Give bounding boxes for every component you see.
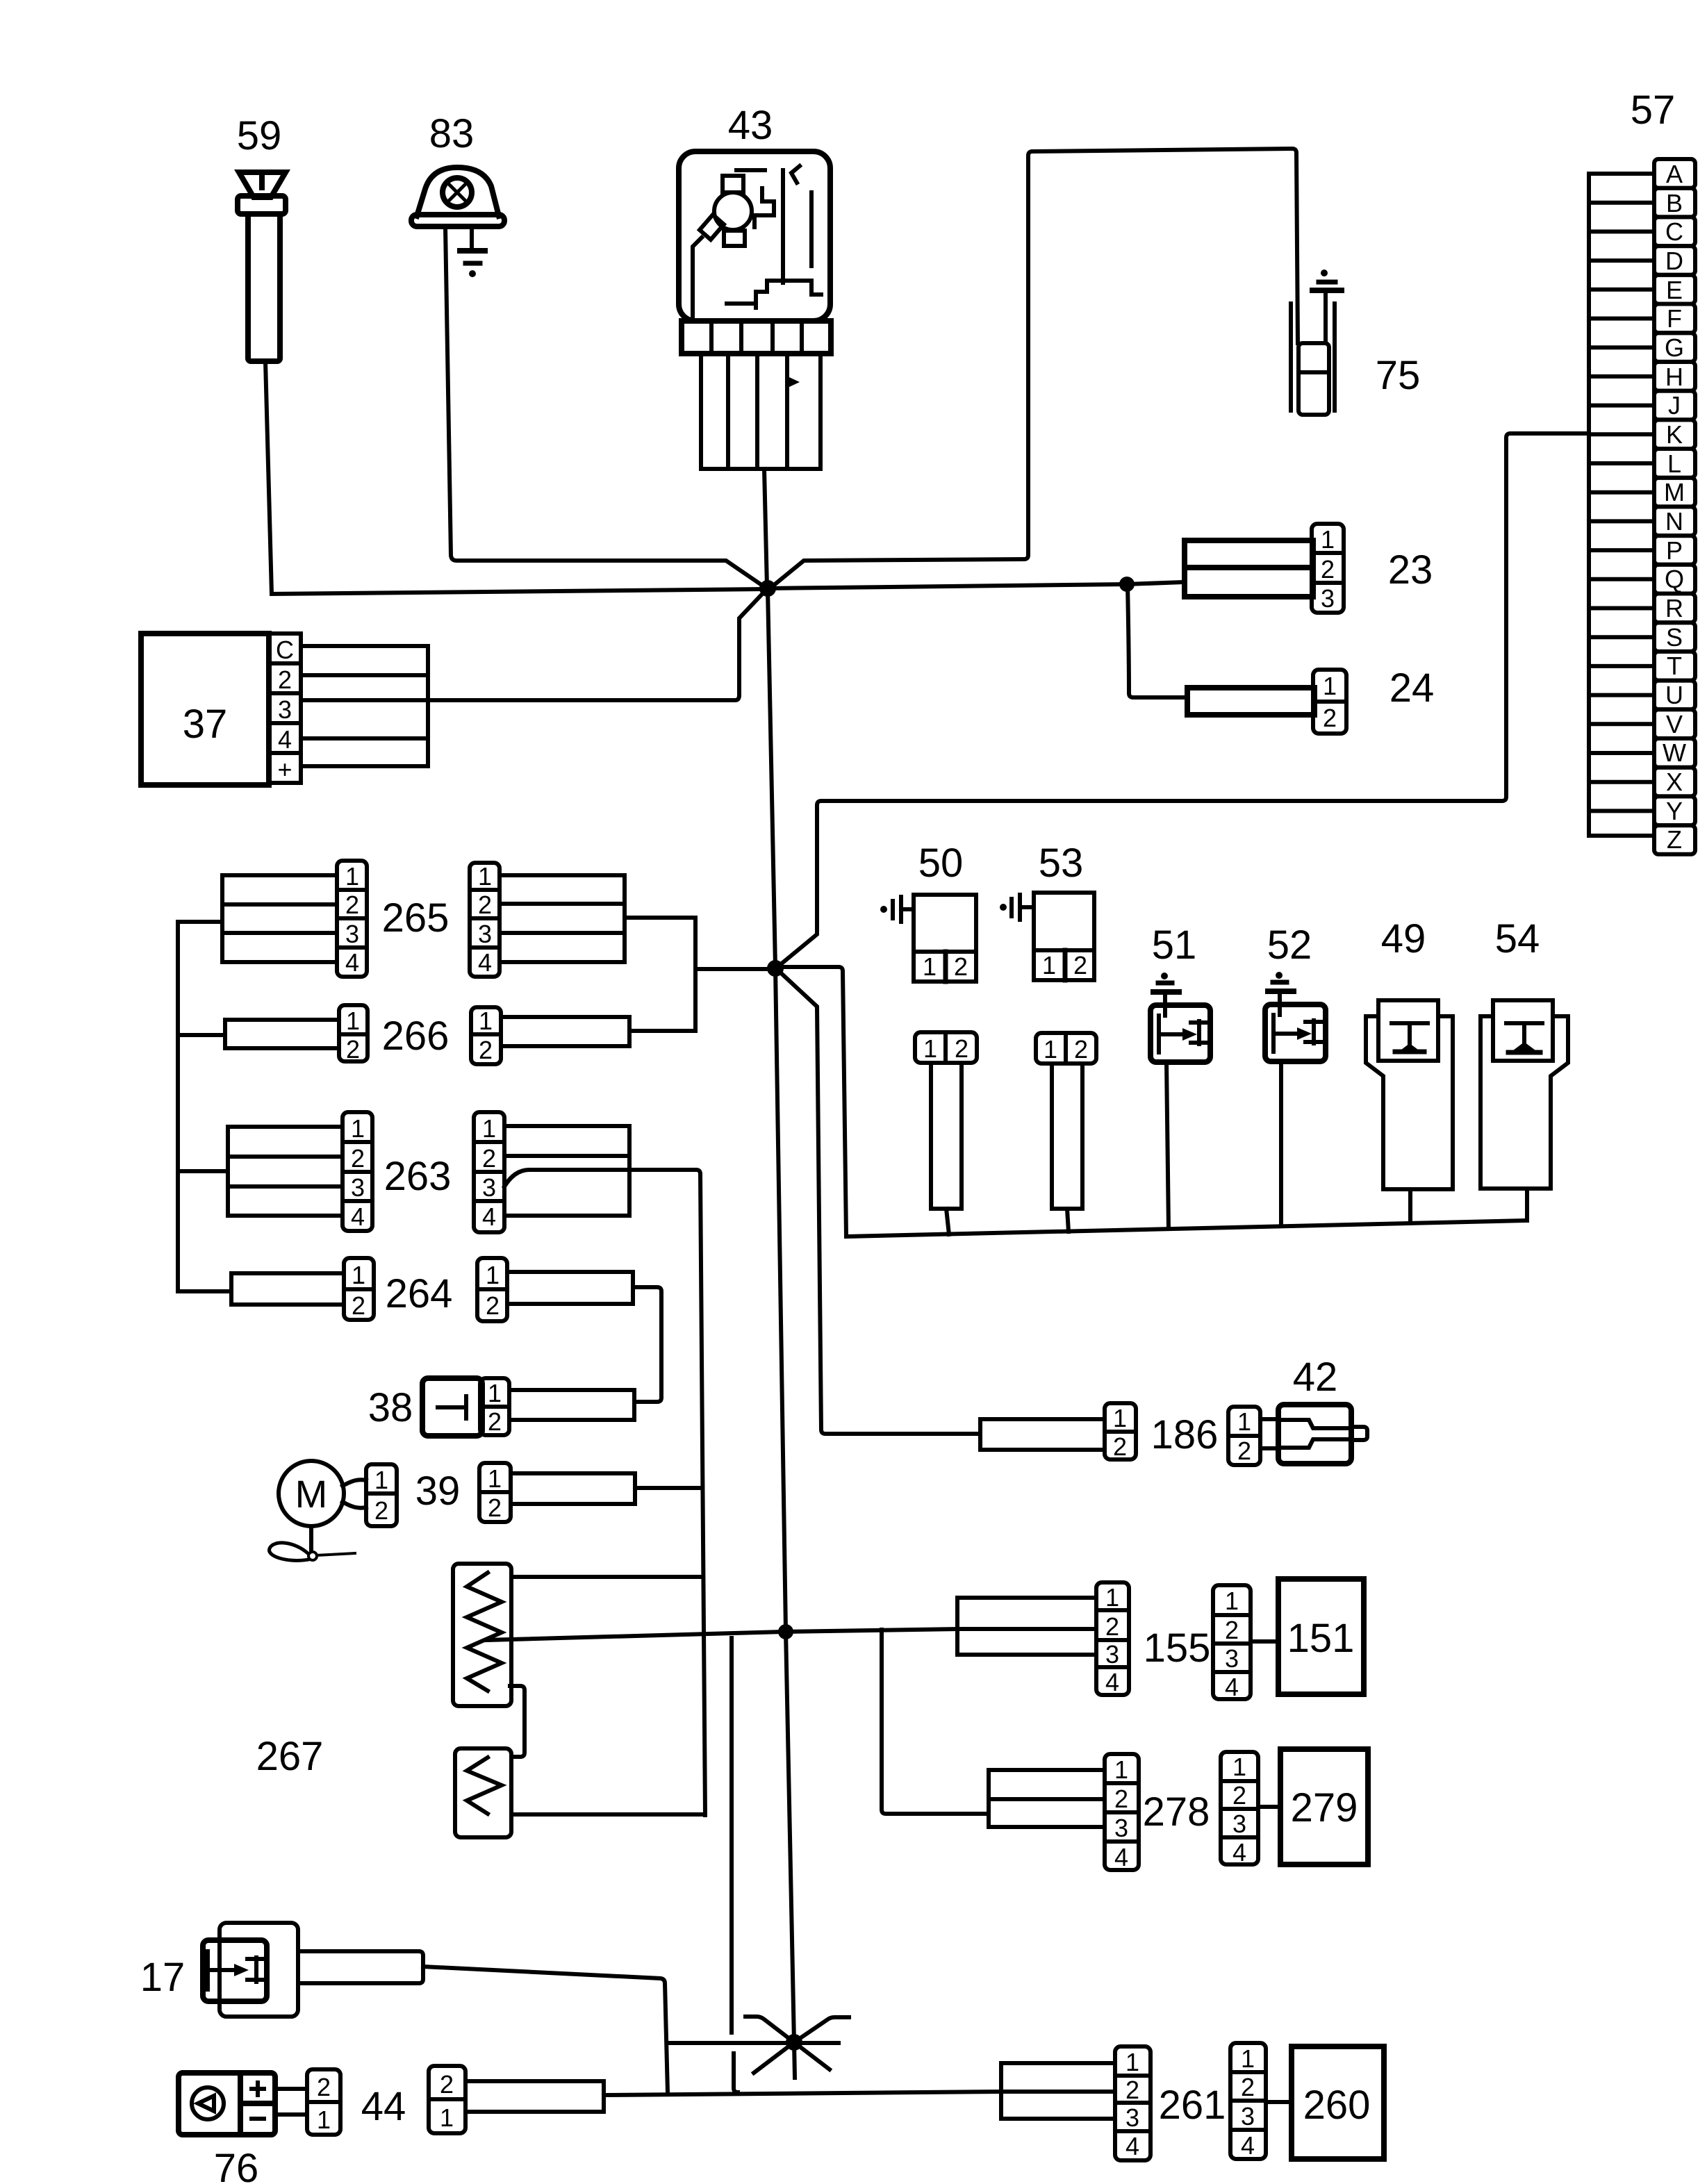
star splice ray NW [745,2017,794,2042]
connector 24 pin block [1313,670,1346,734]
wire 37 pin3 to junction A [301,591,765,700]
svg-text:3: 3 [1114,1814,1128,1842]
connector 264 right pin block [477,1258,507,1321]
svg-text:1: 1 [488,1379,502,1407]
fan blade of motor 39 [270,1526,355,1560]
star splice ray SE [794,2042,830,2069]
bulkhead connector 57 terminal cells [1654,159,1695,854]
svg-text:264: 264 [386,1271,453,1316]
svg-text:59: 59 [237,113,282,158]
injector 51 body [1151,1005,1210,1062]
svg-text:1: 1 [482,1114,496,1143]
right bus 265/266 to junction C [695,918,773,1031]
connector 50 mate pin block [915,1032,977,1063]
svg-text:1: 1 [351,1114,365,1143]
svg-text:2: 2 [278,665,292,694]
svg-text:2: 2 [1113,1432,1127,1461]
wires 261 [1001,2063,1115,2119]
wire junction C to sensor bus [778,967,846,1236]
wire junction A up and over to fuse 75 [769,149,1298,589]
svg-text:1: 1 [1225,1587,1239,1615]
svg-text:4: 4 [1105,1668,1119,1696]
svg-text:151: 151 [1287,1616,1355,1661]
fuse 75 body [1291,304,1335,415]
svg-text:2: 2 [1321,555,1335,584]
wire 57 to junction C [777,433,1589,967]
wires 265 left [222,875,337,962]
svg-text:155: 155 [1144,1625,1211,1671]
svg-text:1: 1 [440,2103,454,2132]
wire 43 to junction A [764,469,767,587]
svg-text:2: 2 [352,1291,365,1320]
svg-text:3: 3 [1125,2103,1139,2132]
arrow mark on prong 4 [789,377,800,387]
link 278 to 279 [1258,1805,1280,1809]
svg-text:2: 2 [374,1496,388,1525]
svg-text:2: 2 [1323,704,1337,732]
svg-text:1: 1 [1044,1035,1057,1064]
svg-text:S: S [1666,623,1683,652]
wire 49 to bus [1408,1189,1412,1222]
wires 50 mate to bus [931,1063,962,1209]
sensor 42 body [1278,1405,1351,1464]
wire 51 to bus [1166,1062,1169,1229]
svg-text:43: 43 [728,103,773,148]
wires 278 [989,1770,1105,1827]
valve 17 connector neck [298,1951,423,1983]
ignition coil 54 boot [1481,1016,1568,1189]
control unit 37 pin block [269,634,301,783]
svg-text:267: 267 [256,1734,324,1779]
svg-text:2: 2 [1073,951,1087,979]
wire junction B to connector 23 [1127,582,1184,584]
svg-text:G: G [1665,333,1684,362]
injector 52 internal symbol [1273,1015,1325,1052]
svg-text:4: 4 [351,1202,365,1231]
connector 39 pin block [479,1463,511,1522]
svg-text:4: 4 [278,725,292,754]
switch 38 pin block [480,1378,509,1435]
svg-text:2: 2 [351,1144,365,1173]
svg-text:76: 76 [214,2146,259,2184]
connector 265 left pin block [337,861,367,977]
svg-text:V: V [1666,710,1683,738]
connector 263 left pin block [343,1112,372,1231]
svg-text:L: L [1667,449,1681,478]
gauge 76 dial [192,2087,224,2119]
svg-text:3: 3 [1232,1810,1246,1838]
wires 186 [980,1419,1105,1450]
svg-text:1: 1 [479,1007,493,1035]
svg-text:266: 266 [382,1014,450,1059]
junction A (main splice) [759,580,776,597]
control unit 37 box [141,634,269,785]
wire bus junction A to junction B [768,584,1127,588]
connector 24 wire (harness box) [1187,688,1314,715]
connector 76 mate pin block [307,2069,340,2135]
connector 266 left pin block [339,1005,368,1061]
svg-text:2: 2 [440,2070,454,2099]
svg-text:1: 1 [1237,1407,1251,1436]
wires 264 left [231,1273,344,1305]
connector 263 right pin block [474,1112,504,1232]
svg-text:D: D [1665,247,1683,275]
module 279 box [1280,1749,1368,1864]
svg-text:2: 2 [488,1494,502,1522]
stub 263 to left bus [178,1169,228,1173]
ignition coil 54 core [1493,1000,1553,1061]
svg-text:3: 3 [278,695,292,724]
valve 17 internal symbol [208,1951,267,1989]
svg-text:186: 186 [1151,1412,1219,1457]
wire 267 top to trunk branch [511,1575,703,1579]
connector 53 mate pin block [1036,1033,1096,1064]
svg-text:263: 263 [384,1154,452,1199]
connector 265 right pin block [470,863,500,977]
svg-text:2: 2 [1105,1612,1119,1641]
wire junction B down to connector 24 [1128,584,1187,697]
sensor group ground bus [846,1221,1527,1236]
svg-text:261: 261 [1159,2083,1226,2128]
svg-text:44: 44 [361,2084,406,2129]
wire 39 to trunk [635,1486,702,1490]
svg-text:4: 4 [1241,2131,1255,2160]
svg-text:17: 17 [140,1955,185,2000]
svg-text:C: C [276,636,294,664]
svg-text:4: 4 [1225,1673,1239,1701]
svg-text:Y: Y [1666,797,1683,825]
link between 267 elements [510,1686,525,1757]
stub 266 right to bus [629,1029,695,1033]
svg-text:4: 4 [1232,1838,1246,1867]
junction D (tap splice) [778,1624,793,1639]
wires 44 [465,2081,604,2112]
svg-text:C: C [1665,217,1683,246]
svg-text:57: 57 [1631,88,1676,133]
connector 261 pin block [1115,2046,1151,2160]
wire 17 to node E [423,1967,668,2093]
ground above fuse 75 [1321,270,1328,276]
stub 265 to left bus [178,920,222,924]
svg-text:2: 2 [486,1291,500,1320]
lamp 83 (bulb in housing) [411,167,504,226]
svg-text:4: 4 [482,1202,496,1231]
svg-text:1: 1 [486,1261,500,1289]
sensor 53 body [1034,893,1094,980]
svg-text:1: 1 [374,1466,388,1494]
svg-text:1: 1 [346,1007,360,1035]
module 151 box [1278,1579,1364,1694]
stub 266 to left bus [178,1033,225,1037]
svg-text:1: 1 [1323,672,1337,700]
wire 263 pin3 long run [504,1170,705,1815]
svg-text:265: 265 [382,895,450,941]
relay 43 body [679,151,830,321]
connector 186 pin block [1105,1403,1136,1459]
svg-text:39: 39 [415,1469,461,1514]
wire node E to star splice [668,2041,839,2045]
sensor 50 body [914,895,976,982]
svg-text:Q: Q [1665,565,1684,593]
svg-text:2: 2 [345,891,359,919]
svg-text:N: N [1665,507,1683,536]
svg-text:A: A [1666,160,1683,188]
svg-text:X: X [1666,768,1683,796]
connector 266 right pin block [471,1007,501,1064]
svg-text:2: 2 [317,2073,331,2101]
svg-text:1: 1 [1241,2044,1255,2073]
wires 155 [957,1598,1094,1655]
star splice (crossing) [786,2034,802,2051]
svg-text:P: P [1666,536,1683,565]
svg-text:H: H [1665,363,1683,391]
svg-text:3: 3 [1105,1640,1119,1669]
connector 155 pin block [1096,1582,1129,1695]
star splice ray NE [794,2017,849,2042]
ground above injector 52 [1276,972,1283,979]
svg-text:51: 51 [1152,923,1197,968]
wire 267 tap to junction D [486,1629,957,1640]
svg-text:2: 2 [482,1144,496,1173]
ground above injector 51 [1161,973,1168,979]
wire junction D branch down to 278 [882,1630,989,1814]
svg-text:1: 1 [1125,2048,1139,2076]
svg-text:R: R [1665,594,1683,622]
wire 54 to bus [1525,1189,1529,1221]
svg-text:T: T [1667,652,1682,680]
ground at lamp 83 [460,226,485,263]
switch 38 contact symbol [438,1396,466,1418]
svg-text:U: U [1665,681,1683,709]
svg-text:37: 37 [183,702,228,747]
svg-text:1: 1 [923,1034,937,1063]
capacitor symbol at 50 [880,906,887,913]
connector 278 mate pin block [1221,1752,1258,1864]
svg-text:2: 2 [1074,1035,1088,1064]
relay 43 connector prongs [701,354,820,469]
svg-text:1: 1 [352,1261,365,1289]
svg-text:42: 42 [1293,1355,1338,1400]
capacitor symbol at 53 [1000,904,1007,911]
svg-text:J: J [1668,391,1681,420]
connector 278 pin block [1105,1754,1139,1870]
relay 43 internal circuit [693,166,821,318]
central harness wire (vertical trunk) [768,590,795,2078]
svg-text:1: 1 [1042,951,1056,979]
wires from 37 pins [301,646,428,766]
svg-text:23: 23 [1388,547,1433,593]
svg-text:2: 2 [1114,1785,1128,1813]
valve 17 symbol box [203,1940,267,2001]
stub 265 right to bus [625,916,695,920]
left harness bus for 265/266/263/264 [176,922,180,1291]
svg-text:M: M [1664,478,1685,506]
svg-text:F: F [1667,304,1682,333]
injector 51 internal symbol [1159,1016,1210,1052]
wire 59 to junction A [265,361,764,594]
wires 53 mate to bus [1052,1064,1082,1209]
svg-text:E: E [1666,276,1683,304]
svg-text:4: 4 [1125,2132,1139,2160]
svg-text:3: 3 [1225,1644,1239,1673]
svg-text:52: 52 [1267,923,1312,968]
wires 263 left [228,1127,343,1216]
injector 52 body [1265,1004,1326,1061]
gauge 76 body [179,2073,275,2135]
svg-text:1: 1 [1321,525,1335,554]
link 155 to 151 [1251,1639,1278,1644]
wires 38 [509,1390,634,1420]
wire 264 right down to 38 [633,1287,661,1402]
svg-text:3: 3 [1321,584,1335,613]
ignition coil 49 boot [1366,1016,1453,1189]
svg-text:1: 1 [1232,1753,1246,1781]
switch 38 body [422,1378,482,1436]
svg-text:279: 279 [1291,1785,1358,1830]
svg-text:1: 1 [1114,1755,1128,1784]
svg-text:4: 4 [345,948,359,977]
wire 44 to connector 261 [604,2092,1001,2095]
wire 52 to bus [1279,1061,1283,1226]
wire junction C down to 186 [777,970,980,1434]
stubs 76 to mate [275,2089,307,2115]
wire 267 tap branch down [732,1638,738,2092]
wires 266 right [501,1017,629,1046]
bulkhead connector 57 wire column [1589,174,1654,836]
stub 264 to left bus [178,1289,231,1293]
svg-text:2: 2 [1237,1437,1251,1465]
svg-text:1: 1 [345,862,359,891]
wires 265 right [500,875,625,962]
module 260 box [1292,2046,1384,2159]
svg-text:3: 3 [478,920,492,948]
wire 83 to junction A [445,226,766,588]
svg-text:2: 2 [1232,1781,1246,1810]
svg-text:75: 75 [1376,353,1421,398]
ignition coil 49 core [1378,1000,1438,1061]
svg-text:2: 2 [488,1407,502,1436]
svg-text:2: 2 [346,1035,360,1064]
svg-text:2: 2 [479,1036,493,1064]
connector 59 (antenna plug) [238,172,286,361]
valve 17 body [220,1923,298,2017]
connector 23 pin block [1312,524,1344,613]
stubs 186 mate to 42 [1260,1419,1278,1448]
relay 43 terminal strip [682,321,831,354]
svg-text:B: B [1666,189,1683,217]
svg-text:Z: Z [1667,825,1682,854]
svg-text:M: M [295,1472,328,1516]
svg-text:38: 38 [368,1385,413,1430]
wires 39 [511,1473,635,1504]
svg-text:2: 2 [478,891,492,919]
svg-text:2: 2 [1125,2076,1139,2104]
svg-text:K: K [1666,420,1683,449]
svg-text:1: 1 [317,2106,331,2134]
svg-text:2: 2 [954,952,968,981]
svg-text:2: 2 [1241,2073,1255,2101]
star splice ray SW [754,2042,794,2073]
connector 264 left pin block [344,1258,374,1320]
svg-text:3: 3 [482,1173,496,1202]
svg-text:1: 1 [923,952,937,981]
svg-text:3: 3 [345,920,359,948]
junction B (to 23/24) [1119,577,1135,592]
wire 267 bottom to trunk branch [511,1812,705,1817]
svg-text:1: 1 [1105,1583,1119,1612]
svg-text:24: 24 [1389,665,1435,711]
svg-text:53: 53 [1039,841,1084,886]
svg-text:83: 83 [429,111,475,156]
resistor 267 upper element [453,1564,511,1706]
wires 264 right [507,1272,633,1304]
motor 39 pin block [366,1464,397,1526]
connector 44 pin block [429,2066,465,2133]
svg-text:2: 2 [1225,1616,1239,1644]
connector 186 mate pin block [1228,1407,1260,1465]
wires 266 left [225,1020,339,1048]
svg-text:50: 50 [918,841,964,886]
svg-text:278: 278 [1143,1789,1210,1835]
svg-text:1: 1 [488,1464,502,1493]
svg-text:4: 4 [478,948,492,977]
svg-text:54: 54 [1495,916,1540,961]
connector 23 wires (harness box) [1185,540,1313,597]
motor 39 leads [343,1480,366,1507]
link 261 to 260 [1266,2100,1292,2104]
connector 155 mate pin block [1213,1585,1251,1699]
resistor 267 lower element [455,1748,511,1837]
plus terminal of 76 [251,2083,264,2095]
svg-text:+: + [277,755,292,784]
svg-text:1: 1 [1113,1404,1127,1432]
svg-text:4: 4 [1114,1843,1128,1871]
wires 263 right [504,1126,629,1216]
svg-text:W: W [1663,738,1686,767]
svg-text:3: 3 [1241,2102,1255,2131]
svg-text:260: 260 [1303,2083,1371,2128]
connector 261 mate pin block [1230,2043,1266,2159]
motor 39 (fan motor) [279,1461,344,1526]
junction C (splice below 43) [767,960,784,977]
svg-text:2: 2 [955,1034,968,1063]
svg-text:3: 3 [351,1173,365,1202]
svg-text:49: 49 [1381,916,1426,961]
minus terminal of 76 [251,2117,264,2121]
svg-text:1: 1 [478,862,492,891]
